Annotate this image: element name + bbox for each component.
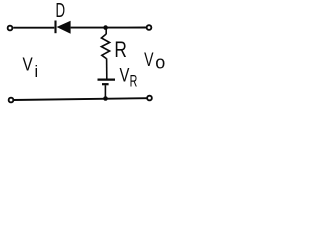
bottom rail wire [14, 98, 147, 100]
node junction top [103, 25, 108, 30]
diode D triangle [57, 21, 71, 34]
wire input to diode [13, 27, 54, 29]
svg-text:i: i [35, 62, 39, 81]
svg-text:V: V [23, 54, 34, 75]
battery VR short plate [102, 83, 109, 85]
terminal top-left (input +) [8, 26, 13, 31]
terminal top-right (output +) [147, 25, 152, 30]
terminal bottom-right (output -) [147, 96, 152, 101]
terminal bottom-left (input -) [9, 98, 14, 103]
svg-text:D: D [56, 0, 66, 22]
resistor R zigzag [101, 34, 109, 59]
wire battery to bottom rail [104, 85, 106, 98]
wire diode to output terminal [71, 27, 147, 29]
diode D cathode bar [54, 21, 56, 34]
svg-text:o: o [155, 51, 165, 72]
svg-text:V: V [144, 50, 153, 71]
svg-text:V: V [120, 64, 130, 86]
wire junction to resistor [105, 28, 107, 34]
svg-text:R: R [114, 37, 127, 62]
wire resistor to battery [106, 58, 108, 78]
node junction bottom [103, 96, 108, 101]
svg-text:R: R [130, 73, 138, 91]
battery VR long plate [98, 78, 116, 80]
